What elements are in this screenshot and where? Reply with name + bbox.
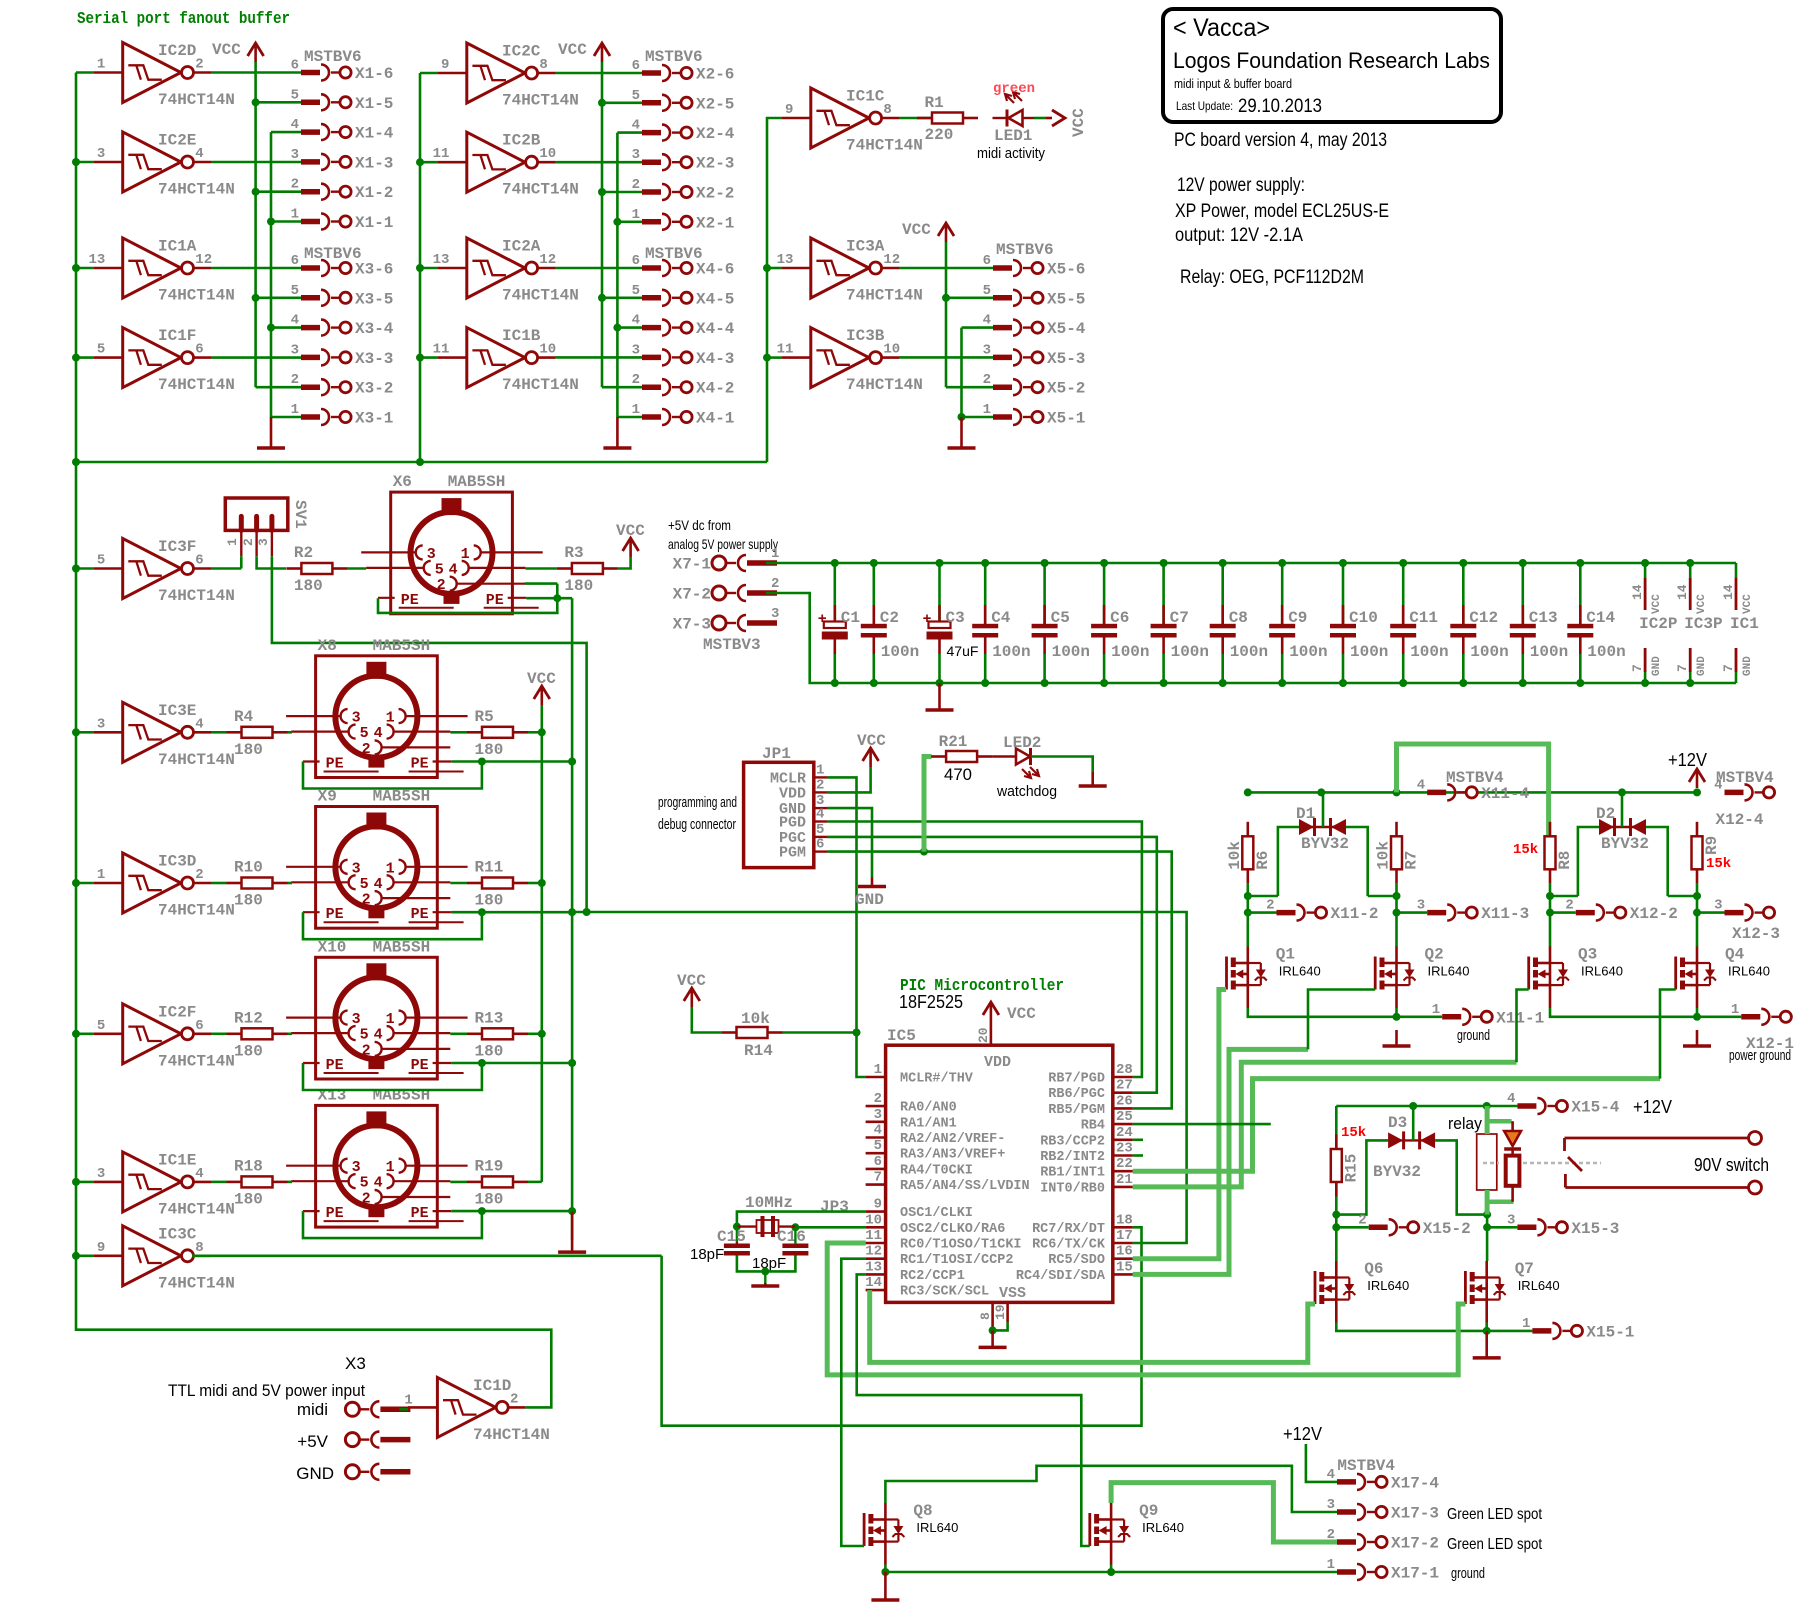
svg-text:X1-1: X1-1 bbox=[355, 214, 393, 232]
ground symbol at JP1 (GND) bbox=[855, 878, 886, 910]
connector pin X11-3 bbox=[1417, 898, 1529, 924]
diode D3 BYV32 bbox=[1373, 1114, 1435, 1181]
svg-text:4: 4 bbox=[1507, 1091, 1515, 1107]
wire: inverter out to R12 bbox=[211, 1033, 227, 1036]
resistor R1 220 bbox=[917, 94, 978, 144]
wire: relay coil bottom bbox=[1483, 1190, 1513, 1231]
svg-text:X8: X8 bbox=[318, 637, 337, 655]
svg-text:100n: 100n bbox=[1350, 643, 1388, 661]
svg-text:R12: R12 bbox=[234, 1009, 263, 1027]
svg-text:X1-3: X1-3 bbox=[355, 154, 393, 172]
svg-text:RC1/T1OSI/CCP2: RC1/T1OSI/CCP2 bbox=[900, 1253, 1013, 1268]
svg-text:VCC: VCC bbox=[677, 972, 706, 990]
svg-text:PE: PE bbox=[486, 592, 504, 609]
resistor R12 180 bbox=[227, 1009, 288, 1060]
connector pin X5-4 bbox=[983, 313, 1086, 339]
svg-text:Serial port fanout buffer: Serial port fanout buffer bbox=[77, 10, 290, 29]
text: watchdog bbox=[996, 783, 1057, 800]
svg-text:74HCT14N: 74HCT14N bbox=[158, 587, 235, 605]
svg-text:3: 3 bbox=[1327, 1497, 1335, 1513]
svg-text:Green LED spot: Green LED spot bbox=[1447, 1506, 1542, 1523]
connector X3 MSTBV6 header label bbox=[304, 245, 362, 263]
svg-text:IRL640: IRL640 bbox=[916, 1520, 958, 1535]
connector pin X4-5 bbox=[632, 283, 735, 309]
svg-text:4: 4 bbox=[632, 313, 640, 329]
svg-text:180: 180 bbox=[234, 1190, 263, 1208]
connector pin X7-1 bbox=[673, 546, 780, 574]
svg-text:X4-1: X4-1 bbox=[696, 410, 734, 428]
transistor Q4 IRL640 bbox=[1676, 946, 1770, 1009]
PIC pin 27 RB6/PGC bbox=[1048, 1078, 1133, 1103]
DIN connector X9 MAB5SH bbox=[286, 788, 468, 929]
svg-text:PE: PE bbox=[411, 1057, 429, 1074]
wire: inverter output to X2/X4 row y=73 bbox=[555, 72, 642, 75]
svg-text:VCC: VCC bbox=[527, 670, 556, 688]
svg-text:74HCT14N: 74HCT14N bbox=[846, 287, 923, 305]
wire: gate/drain node column x=1247.8 bbox=[1244, 884, 1278, 947]
IC IC5 PIC18F2525 body bbox=[886, 1027, 1113, 1302]
svg-text:180: 180 bbox=[475, 892, 504, 910]
transistor Q3 IRL640 bbox=[1529, 946, 1623, 1009]
svg-text:X10: X10 bbox=[318, 938, 347, 956]
connector pin X12-1 bbox=[1731, 1002, 1794, 1053]
connector pin X15-3 bbox=[1507, 1212, 1619, 1238]
resistor R13 180 bbox=[467, 1009, 528, 1060]
DIN connector X13 MAB5SH bbox=[286, 1086, 468, 1227]
svg-text:180: 180 bbox=[294, 577, 323, 595]
svg-text:IC3B: IC3B bbox=[846, 327, 885, 345]
svg-text:25: 25 bbox=[1116, 1109, 1133, 1125]
connector pin X1-2 bbox=[291, 177, 394, 203]
wire: Q6 drain bbox=[1335, 1227, 1338, 1261]
wire: PIC pin23 stub bbox=[1133, 1154, 1143, 1157]
wire: PIC pin22 to Q4 gate (highlighted) bbox=[1133, 990, 1676, 1172]
svg-text:23: 23 bbox=[1116, 1141, 1133, 1157]
capacitor C11 100n bbox=[1390, 563, 1448, 683]
svg-text:5: 5 bbox=[97, 1018, 105, 1034]
svg-text:OSC1/CLKI: OSC1/CLKI bbox=[900, 1206, 973, 1221]
svg-text:3: 3 bbox=[1714, 898, 1722, 914]
svg-text:3: 3 bbox=[291, 147, 299, 163]
text: power ground bbox=[1729, 1047, 1791, 1064]
svg-text:PE: PE bbox=[326, 1057, 344, 1074]
svg-text:INT0/RB0: INT0/RB0 bbox=[1040, 1181, 1105, 1196]
svg-text:X5-3: X5-3 bbox=[1047, 350, 1085, 368]
svg-text:+12V: +12V bbox=[1283, 1424, 1322, 1444]
svg-text:C15: C15 bbox=[717, 1228, 746, 1246]
diode D1 BYV32 bbox=[1296, 805, 1349, 853]
text: green (LED color) bbox=[993, 81, 1035, 97]
svg-text:X5-1: X5-1 bbox=[1047, 410, 1085, 428]
svg-text:27: 27 bbox=[1116, 1078, 1133, 1094]
svg-text:IC3E: IC3E bbox=[158, 702, 196, 720]
svg-text:5: 5 bbox=[360, 725, 369, 742]
svg-text:X4-2: X4-2 bbox=[696, 380, 734, 398]
svg-text:PE: PE bbox=[411, 756, 429, 773]
svg-text:C1: C1 bbox=[841, 609, 860, 627]
ground symbol crystal caps bbox=[751, 1283, 779, 1286]
svg-text:16: 16 bbox=[1116, 1244, 1133, 1260]
svg-text:analog 5V power supply: analog 5V power supply bbox=[668, 536, 778, 552]
connector pin X3-3 bbox=[291, 342, 394, 368]
svg-text:10k: 10k bbox=[1375, 841, 1393, 870]
svg-text:IRL640: IRL640 bbox=[1279, 964, 1321, 979]
power pins IC1 (VCC/GND) bbox=[1721, 563, 1759, 683]
svg-text:IC3D: IC3D bbox=[158, 853, 196, 871]
svg-text:20: 20 bbox=[976, 1027, 991, 1043]
svg-text:74HCT14N: 74HCT14N bbox=[158, 91, 235, 109]
svg-text:IRL640: IRL640 bbox=[1367, 1278, 1409, 1293]
wire: inverter out to R18 bbox=[211, 1181, 227, 1184]
resistor R7 10k bbox=[1375, 822, 1421, 884]
svg-text:15: 15 bbox=[1116, 1259, 1133, 1275]
svg-text:3: 3 bbox=[874, 1107, 882, 1123]
inverter IC2E 74HCT14N bbox=[93, 132, 235, 199]
svg-text:X4-3: X4-3 bbox=[696, 350, 734, 368]
svg-text:C8: C8 bbox=[1229, 609, 1248, 627]
PIC pin 6 RA4/T0CKI bbox=[866, 1154, 973, 1179]
transistor Q8 IRL640 bbox=[864, 1502, 958, 1565]
relay coil bbox=[1477, 1134, 1497, 1190]
crystal Q 10MHz bbox=[757, 1216, 779, 1237]
svg-text:74HCT14N: 74HCT14N bbox=[502, 376, 579, 394]
svg-text:X3-5: X3-5 bbox=[355, 290, 393, 308]
svg-text:5: 5 bbox=[360, 876, 369, 893]
svg-text:VCC: VCC bbox=[1007, 1005, 1036, 1023]
svg-text:2: 2 bbox=[195, 57, 203, 73]
svg-text:TTL midi and 5V power input: TTL midi and 5V power input bbox=[168, 1381, 365, 1400]
svg-text:4: 4 bbox=[874, 1123, 882, 1139]
resistor R21 470 bbox=[931, 733, 992, 784]
svg-text:VCC: VCC bbox=[558, 41, 587, 59]
text: ground bbox=[1457, 1027, 1490, 1044]
connector pin X4-6 bbox=[632, 253, 735, 279]
svg-text:10k: 10k bbox=[741, 1010, 770, 1028]
capacitor C3 47uF bbox=[923, 563, 979, 683]
wire: input bus column 2 bbox=[416, 73, 437, 466]
svg-text:1: 1 bbox=[874, 1062, 882, 1078]
svg-text:3: 3 bbox=[632, 342, 640, 358]
svg-text:VCC: VCC bbox=[902, 221, 931, 239]
svg-text:PE: PE bbox=[326, 1205, 344, 1222]
svg-text:IC2F: IC2F bbox=[158, 1003, 196, 1021]
PIC pin 17 RC6/TX/CK bbox=[1032, 1228, 1133, 1253]
svg-text:10: 10 bbox=[539, 146, 556, 162]
PIC pin 15 RC4/SDI/SDA bbox=[1016, 1259, 1133, 1284]
svg-text:JP3: JP3 bbox=[820, 1198, 849, 1216]
svg-text:RB5/PGM: RB5/PGM bbox=[1048, 1103, 1105, 1118]
connector pin X11-2 bbox=[1266, 898, 1378, 924]
svg-text:1: 1 bbox=[1522, 1316, 1530, 1332]
connector pin X3 midi bbox=[345, 1392, 412, 1417]
svg-text:R6: R6 bbox=[1254, 851, 1272, 870]
svg-text:X3-4: X3-4 bbox=[355, 320, 394, 338]
svg-text:5: 5 bbox=[97, 553, 105, 569]
power VCC arrow at R14 bbox=[677, 972, 706, 1007]
svg-text:R14: R14 bbox=[744, 1042, 773, 1060]
connector JP1 programming header bbox=[744, 745, 827, 868]
inverter IC2A 74HCT14N bbox=[433, 238, 579, 305]
wire: DIN PE loop at y=912.2 bbox=[303, 908, 572, 939]
svg-text:6: 6 bbox=[874, 1154, 882, 1170]
svg-text:100n: 100n bbox=[1171, 643, 1209, 661]
wire: relay coil top to +12V (highlighted) bbox=[1487, 1106, 1512, 1134]
capacitor C1 bbox=[818, 563, 860, 683]
svg-text:14: 14 bbox=[865, 1275, 882, 1291]
svg-text:RB2/INT2: RB2/INT2 bbox=[1040, 1150, 1105, 1165]
connector X1 MSTBV6 header label bbox=[304, 48, 362, 66]
svg-text:IC1B: IC1B bbox=[502, 327, 541, 345]
svg-text:X1-6: X1-6 bbox=[355, 65, 393, 83]
connector pin X4-3 bbox=[632, 342, 735, 368]
wire: R14 to PIC MCLR pin1 bbox=[783, 1033, 866, 1078]
text: midi bbox=[297, 1400, 328, 1419]
svg-text:74HCT14N: 74HCT14N bbox=[502, 92, 579, 110]
text: 18F2525 bbox=[899, 992, 963, 1012]
svg-text:90V switch: 90V switch bbox=[1694, 1155, 1769, 1175]
wire: DIN PE loop at y=1211.1 bbox=[303, 1207, 572, 1238]
svg-text:X3-6: X3-6 bbox=[355, 261, 393, 279]
svg-text:5: 5 bbox=[360, 1027, 369, 1044]
resistor R5 180 bbox=[467, 708, 528, 759]
svg-text:180: 180 bbox=[475, 741, 504, 759]
svg-text:10MHz: 10MHz bbox=[745, 1194, 793, 1212]
svg-text:MAB5SH: MAB5SH bbox=[448, 473, 506, 491]
inverter IC3D 74HCT14N bbox=[93, 853, 235, 920]
svg-text:X3-1: X3-1 bbox=[355, 410, 393, 428]
svg-text:8: 8 bbox=[978, 1312, 993, 1320]
wire: PGC net JP1 to PIC pin27 bbox=[827, 837, 1157, 1093]
svg-text:2: 2 bbox=[437, 577, 446, 594]
svg-text:X15-1: X15-1 bbox=[1586, 1323, 1634, 1341]
text: 90V switch bbox=[1694, 1155, 1769, 1175]
connector pin X5-6 bbox=[983, 253, 1086, 279]
wire: JP1 GND down bbox=[827, 808, 872, 877]
svg-text:XP Power, model ECL25US-E: XP Power, model ECL25US-E bbox=[1175, 201, 1389, 222]
wire: R21 to LED2 bbox=[992, 755, 1016, 757]
svg-text:PE: PE bbox=[411, 1205, 429, 1222]
text: TTL midi and 5V power input bbox=[168, 1381, 365, 1400]
transistor Q7 IRL640 bbox=[1465, 1260, 1559, 1323]
title text: midi input & buffer board bbox=[1174, 76, 1292, 91]
wire: PIC OSC2 to crystal right bbox=[791, 1223, 865, 1231]
svg-text:X5-2: X5-2 bbox=[1047, 380, 1085, 398]
svg-text:C13: C13 bbox=[1529, 609, 1558, 627]
label MSTBV4 X11 bbox=[1446, 769, 1504, 787]
svg-text:VSS: VSS bbox=[999, 1285, 1026, 1302]
wire: IC3A/IC3B output to X5 row y=268 bbox=[899, 267, 993, 270]
svg-text:RA5/AN4/SS/LVDIN: RA5/AN4/SS/LVDIN bbox=[900, 1179, 1030, 1194]
connector pin X4-2 bbox=[632, 372, 735, 398]
svg-text:X15-3: X15-3 bbox=[1571, 1220, 1619, 1238]
svg-text:1: 1 bbox=[816, 762, 824, 778]
wire: DIN pin4 to R13 bbox=[450, 1033, 467, 1036]
capacitor C8 100n bbox=[1210, 563, 1268, 683]
svg-text:MSTBV6: MSTBV6 bbox=[304, 245, 362, 263]
connector pin X1-6 bbox=[291, 58, 394, 84]
wire: R10 to DIN pin5 bbox=[288, 882, 293, 885]
svg-text:12: 12 bbox=[883, 252, 900, 268]
svg-text:74HCT14N: 74HCT14N bbox=[158, 181, 235, 199]
svg-text:7: 7 bbox=[1721, 664, 1736, 672]
wire: Q3/Q4 sources to X12-1 ground row bbox=[1550, 1008, 1741, 1021]
wire: IC3C output to PIC RX (pin18) bbox=[192, 1227, 1142, 1425]
svg-text:R19: R19 bbox=[475, 1157, 504, 1175]
svg-text:2: 2 bbox=[816, 777, 824, 793]
svg-text:3: 3 bbox=[97, 146, 105, 162]
connector X5 MSTBV6 header label bbox=[996, 241, 1054, 259]
PIC pin 10 OSC2/CLKO/RA6 bbox=[865, 1212, 1005, 1237]
svg-text:C11: C11 bbox=[1409, 609, 1438, 627]
svg-text:2: 2 bbox=[362, 741, 371, 758]
ground symbol X1/X3 bbox=[257, 417, 285, 448]
svg-text:15k: 15k bbox=[1513, 842, 1538, 858]
svg-text:3: 3 bbox=[983, 342, 991, 358]
PIC pin 1 MCLR#/THV bbox=[866, 1062, 974, 1087]
wire: PIC OSC1 to crystal left bbox=[733, 1212, 866, 1231]
svg-text:6: 6 bbox=[983, 253, 991, 269]
svg-text:10k: 10k bbox=[1226, 841, 1244, 870]
svg-text:IC1E: IC1E bbox=[158, 1151, 196, 1169]
wire: C15 top bbox=[736, 1227, 738, 1244]
svg-text:14: 14 bbox=[1675, 584, 1690, 600]
resistor R11 180 bbox=[467, 859, 528, 910]
svg-text:2: 2 bbox=[632, 177, 640, 193]
connector pin X3-4 bbox=[291, 313, 394, 339]
connector pin X17-2 bbox=[1327, 1527, 1439, 1553]
wire: to X11-2 bbox=[1248, 911, 1277, 914]
PIC pin 16 RC5/SDO bbox=[1048, 1244, 1133, 1269]
svg-text:2: 2 bbox=[771, 576, 779, 592]
svg-text:X7-1: X7-1 bbox=[673, 556, 711, 574]
wire: bus tie across bottom of fanout section bbox=[76, 461, 767, 464]
wire: crystal stubs bbox=[737, 1225, 796, 1227]
svg-text:100n: 100n bbox=[1289, 643, 1327, 661]
svg-text:10: 10 bbox=[883, 342, 900, 358]
svg-text:3: 3 bbox=[291, 342, 299, 358]
svg-text:PE: PE bbox=[326, 906, 344, 923]
inverter IC1C 74HCT14N bbox=[781, 88, 922, 155]
svg-text:IC2B: IC2B bbox=[502, 132, 541, 150]
power VCC rail X2/X4 with arrow bbox=[558, 41, 642, 387]
svg-text:6: 6 bbox=[195, 342, 203, 358]
svg-text:4: 4 bbox=[632, 118, 640, 134]
svg-text:X3: X3 bbox=[345, 1354, 366, 1373]
svg-text:Q9: Q9 bbox=[1139, 1502, 1158, 1520]
connector SV1 jumper bbox=[225, 498, 309, 556]
svg-text:4: 4 bbox=[983, 313, 991, 329]
wire: Q9 drain to X17-2 (highlighted) bbox=[1111, 1483, 1337, 1542]
svg-text:10: 10 bbox=[865, 1212, 882, 1228]
svg-text:13: 13 bbox=[865, 1259, 882, 1275]
wire: DIN PE loop at y=1063 bbox=[303, 1059, 572, 1090]
svg-text:VCC: VCC bbox=[1070, 108, 1088, 137]
svg-text:RB6/PGC: RB6/PGC bbox=[1048, 1087, 1105, 1102]
wire: IC3F output to SV1 pin1 bbox=[211, 556, 241, 568]
svg-text:+5V dc from: +5V dc from bbox=[668, 517, 731, 533]
wire: gate/drain node column x=1396.5 bbox=[1368, 884, 1401, 947]
svg-text:3: 3 bbox=[97, 1166, 105, 1182]
svg-text:MCLR#/THV: MCLR#/THV bbox=[900, 1072, 974, 1087]
svg-text:GND: GND bbox=[1651, 656, 1663, 676]
wire: PIC pin15 to Q2 gate (highlighted) bbox=[1133, 990, 1375, 1275]
svg-text:1: 1 bbox=[771, 546, 779, 562]
power VCC arrow right (LED1 net) bbox=[1046, 108, 1088, 137]
wire: R3 to VCC bbox=[618, 557, 631, 569]
svg-text:C9: C9 bbox=[1288, 609, 1307, 627]
wire: PIC pin24 stub bbox=[1133, 1139, 1143, 1142]
connector pin X2-1 bbox=[632, 207, 735, 233]
svg-text:IC3C: IC3C bbox=[158, 1225, 197, 1243]
wire: Q7 drain bbox=[1486, 1227, 1489, 1261]
connector X2 MSTBV6 header label bbox=[645, 48, 703, 66]
power pins IC3P (VCC/GND) bbox=[1675, 563, 1722, 683]
svg-text:180: 180 bbox=[475, 1042, 504, 1060]
power VCC arrow at JP1 bbox=[857, 732, 886, 767]
svg-text:14: 14 bbox=[1630, 584, 1645, 600]
connector pin X12-4 bbox=[1714, 777, 1775, 829]
svg-text:OSC2/CLKO/RA6: OSC2/CLKO/RA6 bbox=[900, 1222, 1005, 1237]
svg-text:9: 9 bbox=[874, 1197, 882, 1213]
svg-text:RC5/SDO: RC5/SDO bbox=[1048, 1253, 1105, 1268]
connector pin X2-5 bbox=[632, 88, 735, 114]
svg-text:R2: R2 bbox=[294, 544, 313, 562]
svg-text:BYV32: BYV32 bbox=[1373, 1163, 1421, 1181]
capacitor C13 100n bbox=[1510, 563, 1568, 683]
svg-text:220: 220 bbox=[925, 126, 954, 144]
svg-text:PE: PE bbox=[326, 756, 344, 773]
svg-text:2: 2 bbox=[241, 538, 256, 546]
svg-text:Q8: Q8 bbox=[913, 1502, 932, 1520]
wire: PIC pin25 stub net bbox=[1133, 1123, 1271, 1126]
PIC pin 22 RB1/INT1 bbox=[1040, 1156, 1133, 1181]
svg-text:5: 5 bbox=[816, 822, 824, 838]
svg-text:1: 1 bbox=[1432, 1002, 1440, 1018]
svg-text:100n: 100n bbox=[1410, 643, 1448, 661]
svg-text:MSTBV6: MSTBV6 bbox=[645, 245, 703, 263]
svg-text:X12-3: X12-3 bbox=[1732, 925, 1780, 943]
ground symbol LED2 bbox=[1079, 772, 1107, 786]
wire: gate/drain node column x=1697 bbox=[1668, 884, 1701, 947]
svg-text:+12V: +12V bbox=[1668, 750, 1707, 770]
wire: to X15-3 bbox=[1487, 1226, 1517, 1229]
svg-text:74HCT14N: 74HCT14N bbox=[158, 1274, 235, 1292]
svg-text:green: green bbox=[993, 81, 1035, 97]
svg-text:IRL640: IRL640 bbox=[1142, 1520, 1184, 1535]
wire: inverter output to connector row y=72.5 bbox=[211, 71, 301, 74]
DIN connector X10 MAB5SH bbox=[286, 938, 468, 1079]
capacitor C15 18pF bbox=[690, 1228, 750, 1263]
resistor R8 15k bbox=[1513, 822, 1574, 884]
svg-text:IC2C: IC2C bbox=[502, 43, 541, 61]
svg-text:12: 12 bbox=[195, 252, 212, 268]
svg-text:IC2D: IC2D bbox=[158, 42, 196, 60]
svg-text:X2-1: X2-1 bbox=[696, 214, 734, 232]
svg-text:1: 1 bbox=[225, 538, 240, 546]
svg-text:5: 5 bbox=[632, 88, 640, 104]
svg-text:RC7/RX/DT: RC7/RX/DT bbox=[1032, 1222, 1105, 1237]
wire: inverter out to R4 bbox=[211, 731, 227, 734]
svg-text:Q4: Q4 bbox=[1725, 946, 1745, 964]
svg-text:74HCT14N: 74HCT14N bbox=[158, 751, 235, 769]
wire: C15 C16 to ground bbox=[737, 1256, 796, 1284]
connector pin X5-2 bbox=[983, 372, 1086, 398]
svg-text:RA2/AN2/VREF-: RA2/AN2/VREF- bbox=[900, 1132, 1005, 1147]
wire: LED2 to ground bbox=[1031, 757, 1093, 773]
svg-text:X12-4: X12-4 bbox=[1716, 811, 1764, 829]
svg-text:12: 12 bbox=[865, 1244, 882, 1260]
svg-text:2: 2 bbox=[510, 1391, 518, 1407]
